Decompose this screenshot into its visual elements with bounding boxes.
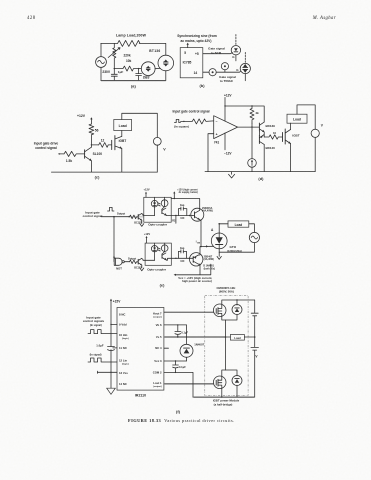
- wire marker stem: [224, 70, 226, 72]
- wire drive collector to led: [142, 214, 155, 216]
- scan bleed artifacts: [101, 81, 254, 397]
- resistor upper drive: [130, 215, 138, 219]
- wire lower collector to gate node: [199, 247, 202, 256]
- opto output transistor upper: [162, 207, 165, 210]
- supply return hollow arrow: [107, 388, 116, 394]
- wire COM to bottom rail: [164, 372, 193, 397]
- battery upper: [251, 313, 258, 316]
- wire igbt emitter down: [290, 144, 292, 172]
- ground symbol: [229, 172, 235, 178]
- opto led upper: [151, 200, 158, 207]
- load box e: [228, 221, 249, 227]
- wire vdd: [111, 324, 117, 326]
- igbt c: [112, 136, 115, 150]
- opto phototransistor upper: [161, 200, 168, 207]
- wire not out: [124, 261, 129, 263]
- transistor lower right: [190, 253, 203, 266]
- transistor BD139: [258, 123, 260, 131]
- NOT gate: [114, 258, 122, 265]
- resistor 56: [89, 124, 94, 145]
- wire source to bottom: [251, 167, 253, 171]
- ac source 230V: [96, 57, 107, 68]
- wire opto out upper: [166, 215, 192, 217]
- top igbt: [213, 304, 226, 317]
- load box: [114, 120, 132, 131]
- wire resistor bottom to node: [251, 123, 253, 127]
- wire bottom source down: [221, 388, 223, 397]
- wire top source down to midpoint: [222, 316, 226, 337]
- wire sd: [113, 347, 117, 349]
- capacitor 0.1uF vcc: [173, 361, 179, 372]
- wire gto cathode: [218, 249, 220, 252]
- resistor 1.5k: [64, 151, 85, 156]
- wire pin5 to SCR gate: [203, 53, 233, 54]
- wire sync input arrow: [187, 44, 189, 48]
- opto led lower: [151, 246, 157, 252]
- wire triac top dashed: [244, 52, 246, 63]
- op-amp 741: [214, 116, 238, 139]
- wire triac cathode: [165, 71, 167, 81]
- resistor 12: [99, 143, 112, 148]
- wire input: [181, 120, 193, 122]
- triac circle: [240, 63, 250, 73]
- waveform hin: [88, 330, 117, 334]
- wire rc tap down: [175, 216, 177, 224]
- wire collector to load: [290, 123, 292, 129]
- wire emitters join: [263, 132, 265, 137]
- wire anode up: [219, 224, 228, 233]
- wire bottom rail: [51, 171, 157, 173]
- wire triac bottom: [244, 74, 246, 81]
- scr circle: [231, 46, 240, 55]
- wire +12V arrow upper left: [145, 193, 147, 197]
- current source circle: [248, 159, 257, 168]
- wire led bottom: [154, 205, 156, 215]
- capacitor 1uF: [111, 69, 117, 81]
- wire photo top lower: [164, 243, 166, 245]
- ground arrow lower drive: [140, 265, 144, 271]
- wire led bottom lower: [154, 250, 156, 260]
- wire drive collector to led lower: [142, 259, 155, 261]
- resistor gate 10: [264, 135, 282, 139]
- transistor BD140: [258, 136, 260, 144]
- wire +12V to op-amp: [224, 97, 226, 121]
- wire opto out lower: [166, 258, 193, 260]
- wire load top rail: [297, 105, 315, 129]
- resistor 10k: [114, 66, 141, 71]
- opto arrows lower: [158, 248, 160, 251]
- diode 1N4007: [186, 325, 188, 344]
- transistor SL100: [84, 150, 86, 159]
- wire scr cathode: [235, 55, 237, 61]
- opto box lower: [145, 243, 171, 265]
- wire gate to GTO: [201, 245, 214, 247]
- pulse symbol e: [108, 207, 115, 211]
- wire diac gate: [155, 67, 160, 69]
- wire emitter down: [121, 149, 123, 173]
- wire node down to current source: [251, 127, 253, 159]
- wire source bottom: [100, 67, 102, 80]
- wire Hout to top igbt gate: [164, 311, 214, 313]
- load box d: [287, 114, 307, 123]
- wire plus input to ground: [208, 134, 214, 172]
- bottom igbt: [213, 376, 226, 389]
- wire lower emitter to vcc: [199, 264, 201, 275]
- wire Vcc: [164, 360, 187, 362]
- IR2110 box: [117, 308, 164, 391]
- wire bottom: [101, 79, 166, 81]
- potentiometer 220k: [113, 43, 116, 68]
- GTO circle: [211, 233, 227, 249]
- wire top left: [101, 42, 118, 44]
- wire bottom drain up to midpoint: [222, 337, 226, 377]
- voltage source V: [153, 137, 161, 145]
- igbt d: [283, 129, 286, 144]
- IC785 box: [180, 48, 203, 78]
- transistor upper drive: [137, 214, 139, 219]
- bottom freewheel diode: [232, 376, 242, 386]
- opto arrows: [158, 203, 160, 206]
- scan noise overlay: [0, 0, 1, 1]
- wire led top: [154, 197, 156, 200]
- svg-text:FIGURE 18.33Various practical: FIGURE 18.33Various practical driver cir…: [128, 418, 235, 423]
- capacitor (diac branch): [136, 69, 142, 81]
- wire input e: [101, 216, 130, 218]
- resistor lower drive: [130, 260, 138, 264]
- wire bottom rail d: [205, 171, 315, 173]
- wire bases join: [258, 131, 260, 136]
- opto phototransistor lower: [161, 245, 168, 252]
- wire Lout to bottom igbt gate: [164, 383, 214, 385]
- resistor lamp load: [118, 40, 140, 46]
- wire source top: [100, 43, 102, 56]
- wire top right: [139, 43, 166, 55]
- waveform lin: [88, 358, 117, 362]
- transistor upper right: [191, 208, 204, 221]
- rc element lower: [178, 251, 186, 258]
- load box f: [230, 335, 244, 341]
- diac DB3: [141, 62, 155, 76]
- battery lower V: [251, 348, 259, 351]
- wire +15V rail: [110, 300, 112, 388]
- rc element upper: [178, 209, 186, 216]
- module dashed box: [205, 295, 248, 395]
- wire bottom rail f: [193, 396, 255, 398]
- node junction: [114, 68, 115, 69]
- wire load bottom to collector: [121, 131, 123, 137]
- wire input: [59, 153, 65, 155]
- wire supply arrow: [90, 119, 92, 124]
- wire +12V arrow lower left: [146, 237, 148, 243]
- pulse marker circle 1: [221, 63, 228, 70]
- ac source e: [249, 232, 259, 242]
- resistor 4k: [250, 106, 254, 123]
- +12V arrow upper right: [173, 193, 175, 199]
- transistor lower drive: [137, 259, 139, 264]
- resistor input: [192, 119, 214, 124]
- voltage source V d: [311, 129, 319, 137]
- wire input down to NOT: [113, 217, 115, 262]
- wire top drain to rail: [222, 300, 255, 305]
- top freewheel diode: [232, 305, 242, 315]
- pulse symbol: [174, 119, 180, 122]
- triac BT136: [158, 55, 174, 71]
- wire bd140 collector down: [263, 144, 265, 171]
- wire midpoint to load: [226, 336, 255, 338]
- capacitor 0.1uF bootstrap: [175, 325, 181, 337]
- wire collector rail upper: [171, 199, 200, 211]
- opto box upper: [144, 197, 171, 222]
- wire load to ac source: [249, 224, 255, 233]
- ground arrow upper drive: [140, 220, 144, 226]
- wire emitter to gate node: [200, 220, 201, 247]
- capacitor 1.0uF: [108, 347, 115, 351]
- cathode terminal arrow: [217, 252, 221, 259]
- wire vss: [98, 371, 118, 373]
- wire NC4 stub: [164, 347, 169, 349]
- wire scr anode: [235, 35, 237, 46]
- wire op-amp minus supply: [224, 133, 226, 150]
- wire op-amp output: [238, 126, 260, 128]
- opto output transistor lower: [162, 252, 165, 255]
- wire Vb: [164, 324, 187, 326]
- pulse marker circle 2: [209, 69, 216, 76]
- wire right rail top: [254, 300, 256, 313]
- wire pin14 to TRIAC gate: [203, 71, 241, 72]
- wire photo top: [164, 197, 166, 200]
- wire source down: [314, 137, 316, 171]
- wire Vs to midpoint: [164, 336, 226, 338]
- wire source bottom: [156, 145, 158, 172]
- wire vcc feed: [175, 264, 211, 275]
- wire ac bottom: [219, 243, 254, 253]
- wire top rail to BD139 collector: [225, 106, 264, 122]
- wire led top lower: [154, 243, 156, 246]
- wire load top: [122, 113, 158, 137]
- wire collector node: [91, 145, 98, 147]
- wire bjt emitter down: [90, 161, 92, 172]
